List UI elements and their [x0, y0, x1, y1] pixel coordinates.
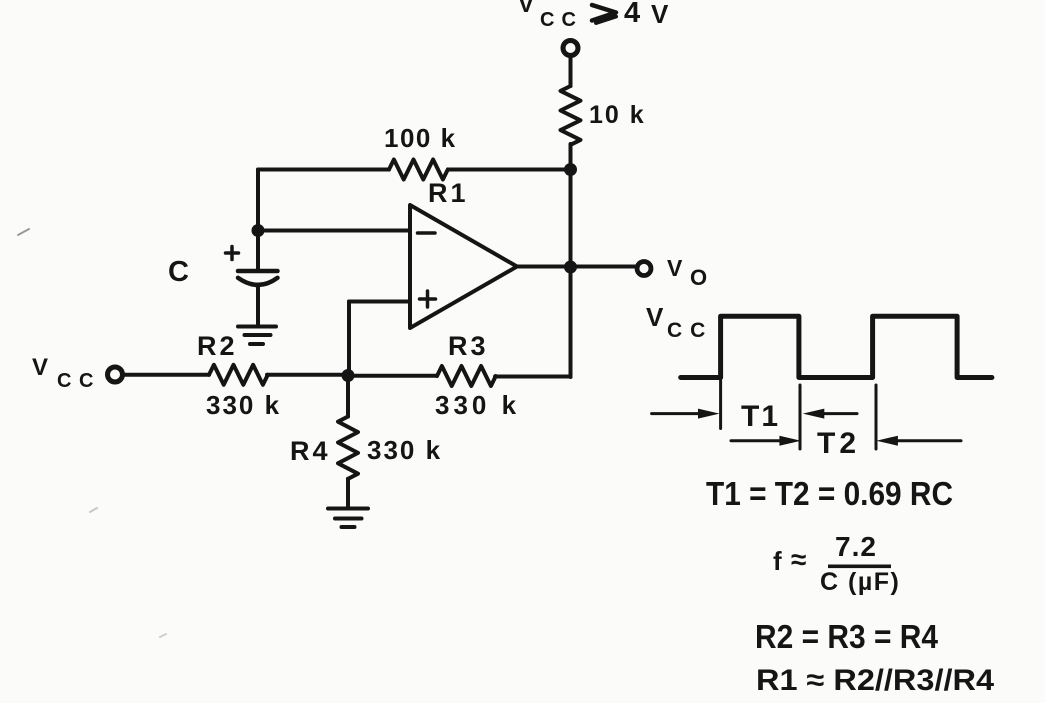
ground (capacitor): [238, 327, 276, 345]
wire to inverting input: [258, 229, 410, 233]
label Vcc >= 4 V (top supply): [518, 0, 583, 31]
svg-text:330 k: 330 k: [206, 390, 281, 420]
svg-text:T1: T1: [741, 400, 780, 433]
scan speck (faint): [18, 229, 29, 235]
resistor R3 330 k: [437, 366, 496, 386]
svg-text:O: O: [690, 265, 707, 290]
wire R 10k to node A: [569, 144, 573, 170]
svg-text:CC: CC: [667, 319, 713, 342]
node D (output junction): [564, 261, 577, 274]
svg-text:10 k: 10 k: [589, 101, 646, 129]
label Vo: [667, 255, 707, 290]
svg-text:7.2: 7.2: [835, 531, 877, 562]
svg-text:CC: CC: [57, 370, 101, 392]
svg-text:V: V: [518, 0, 535, 18]
arrow T2 left: [731, 439, 781, 442]
wire R4 bottom lead: [346, 479, 350, 507]
arrow T1 right: [822, 412, 857, 415]
wire node C to R3: [348, 374, 437, 378]
node C (noninverting rail junction): [342, 369, 355, 382]
wire to noninverting input: [349, 300, 410, 304]
formula f approx 7.2 / C(uF): [773, 531, 900, 596]
wire R4 top lead: [346, 376, 350, 417]
wire R2 to node C: [267, 373, 348, 377]
terminal Vo: [637, 262, 651, 276]
svg-text:100 k: 100 k: [384, 123, 457, 153]
resistor R4 330 k: [338, 417, 358, 479]
terminal Vcc top: [563, 41, 578, 56]
wire terminal to R 10k: [569, 57, 573, 86]
dimension tick first rising edge: [719, 380, 722, 429]
resistor R1 100 k: [389, 160, 448, 180]
node B (inverting input node): [252, 224, 265, 237]
svg-text:≈: ≈: [791, 544, 806, 575]
svg-text:C (µF): C (µF): [820, 568, 900, 596]
svg-text:R4: R4: [290, 436, 331, 466]
op-amp plus input mark: [420, 291, 436, 307]
wire op-amp output: [517, 265, 636, 269]
svg-text:C: C: [168, 256, 189, 288]
capacitor C top lead: [256, 237, 260, 269]
capacitor C polarity plus: [226, 247, 239, 260]
svg-text:V: V: [667, 255, 683, 281]
capacitor C bottom plate (curved): [238, 278, 278, 285]
svg-text:T2: T2: [817, 427, 860, 460]
arrow T1 left: [652, 412, 700, 415]
svg-text:V: V: [32, 354, 48, 381]
resistor R2 330 k: [209, 365, 268, 385]
svg-text:CC: CC: [540, 9, 583, 31]
ground (R4): [328, 509, 368, 528]
arrow T2 right: [897, 439, 961, 442]
wire feedback left vertical: [256, 170, 260, 231]
svg-text:330 k: 330 k: [435, 390, 520, 420]
wire feedback top horizontal: [258, 168, 571, 172]
dimension tick second rising edge: [875, 385, 878, 449]
wire left rail to R2: [124, 373, 209, 377]
svg-text:R3: R3: [448, 331, 489, 361]
svg-text:f: f: [773, 546, 782, 576]
resistor 10 k: [561, 86, 581, 145]
svg-text:R2 = R3 = R4: R2 = R3 = R4: [755, 618, 939, 655]
capacitor C bottom lead: [256, 285, 260, 327]
svg-text:V: V: [651, 0, 669, 29]
waveform square wave: [681, 316, 992, 377]
op-amp minus input mark: [418, 231, 436, 235]
svg-text:V: V: [646, 302, 664, 332]
wire output vertical (x=570): [569, 170, 573, 378]
node A (top junction): [564, 163, 577, 176]
svg-text:R1: R1: [428, 178, 469, 208]
svg-text:330 k: 330 k: [367, 435, 442, 465]
dimension tick first falling edge: [799, 385, 802, 449]
capacitor C top plate: [238, 269, 278, 274]
wire noninverting input down to rail: [347, 302, 351, 376]
svg-text:4: 4: [624, 0, 640, 29]
op-amp U1: [410, 205, 517, 328]
wire R3 to feedback vertical: [495, 375, 571, 379]
label Vcc (waveform level): [646, 302, 713, 342]
svg-text:R1 ≈ R2//R3//R4: R1 ≈ R2//R3//R4: [756, 664, 994, 697]
svg-text:R2: R2: [197, 331, 238, 361]
terminal Vcc left: [108, 367, 123, 382]
label Vcc (left rail): [32, 354, 101, 392]
svg-text:T1 = T2 = 0.69 RC: T1 = T2 = 0.69 RC: [706, 475, 953, 512]
